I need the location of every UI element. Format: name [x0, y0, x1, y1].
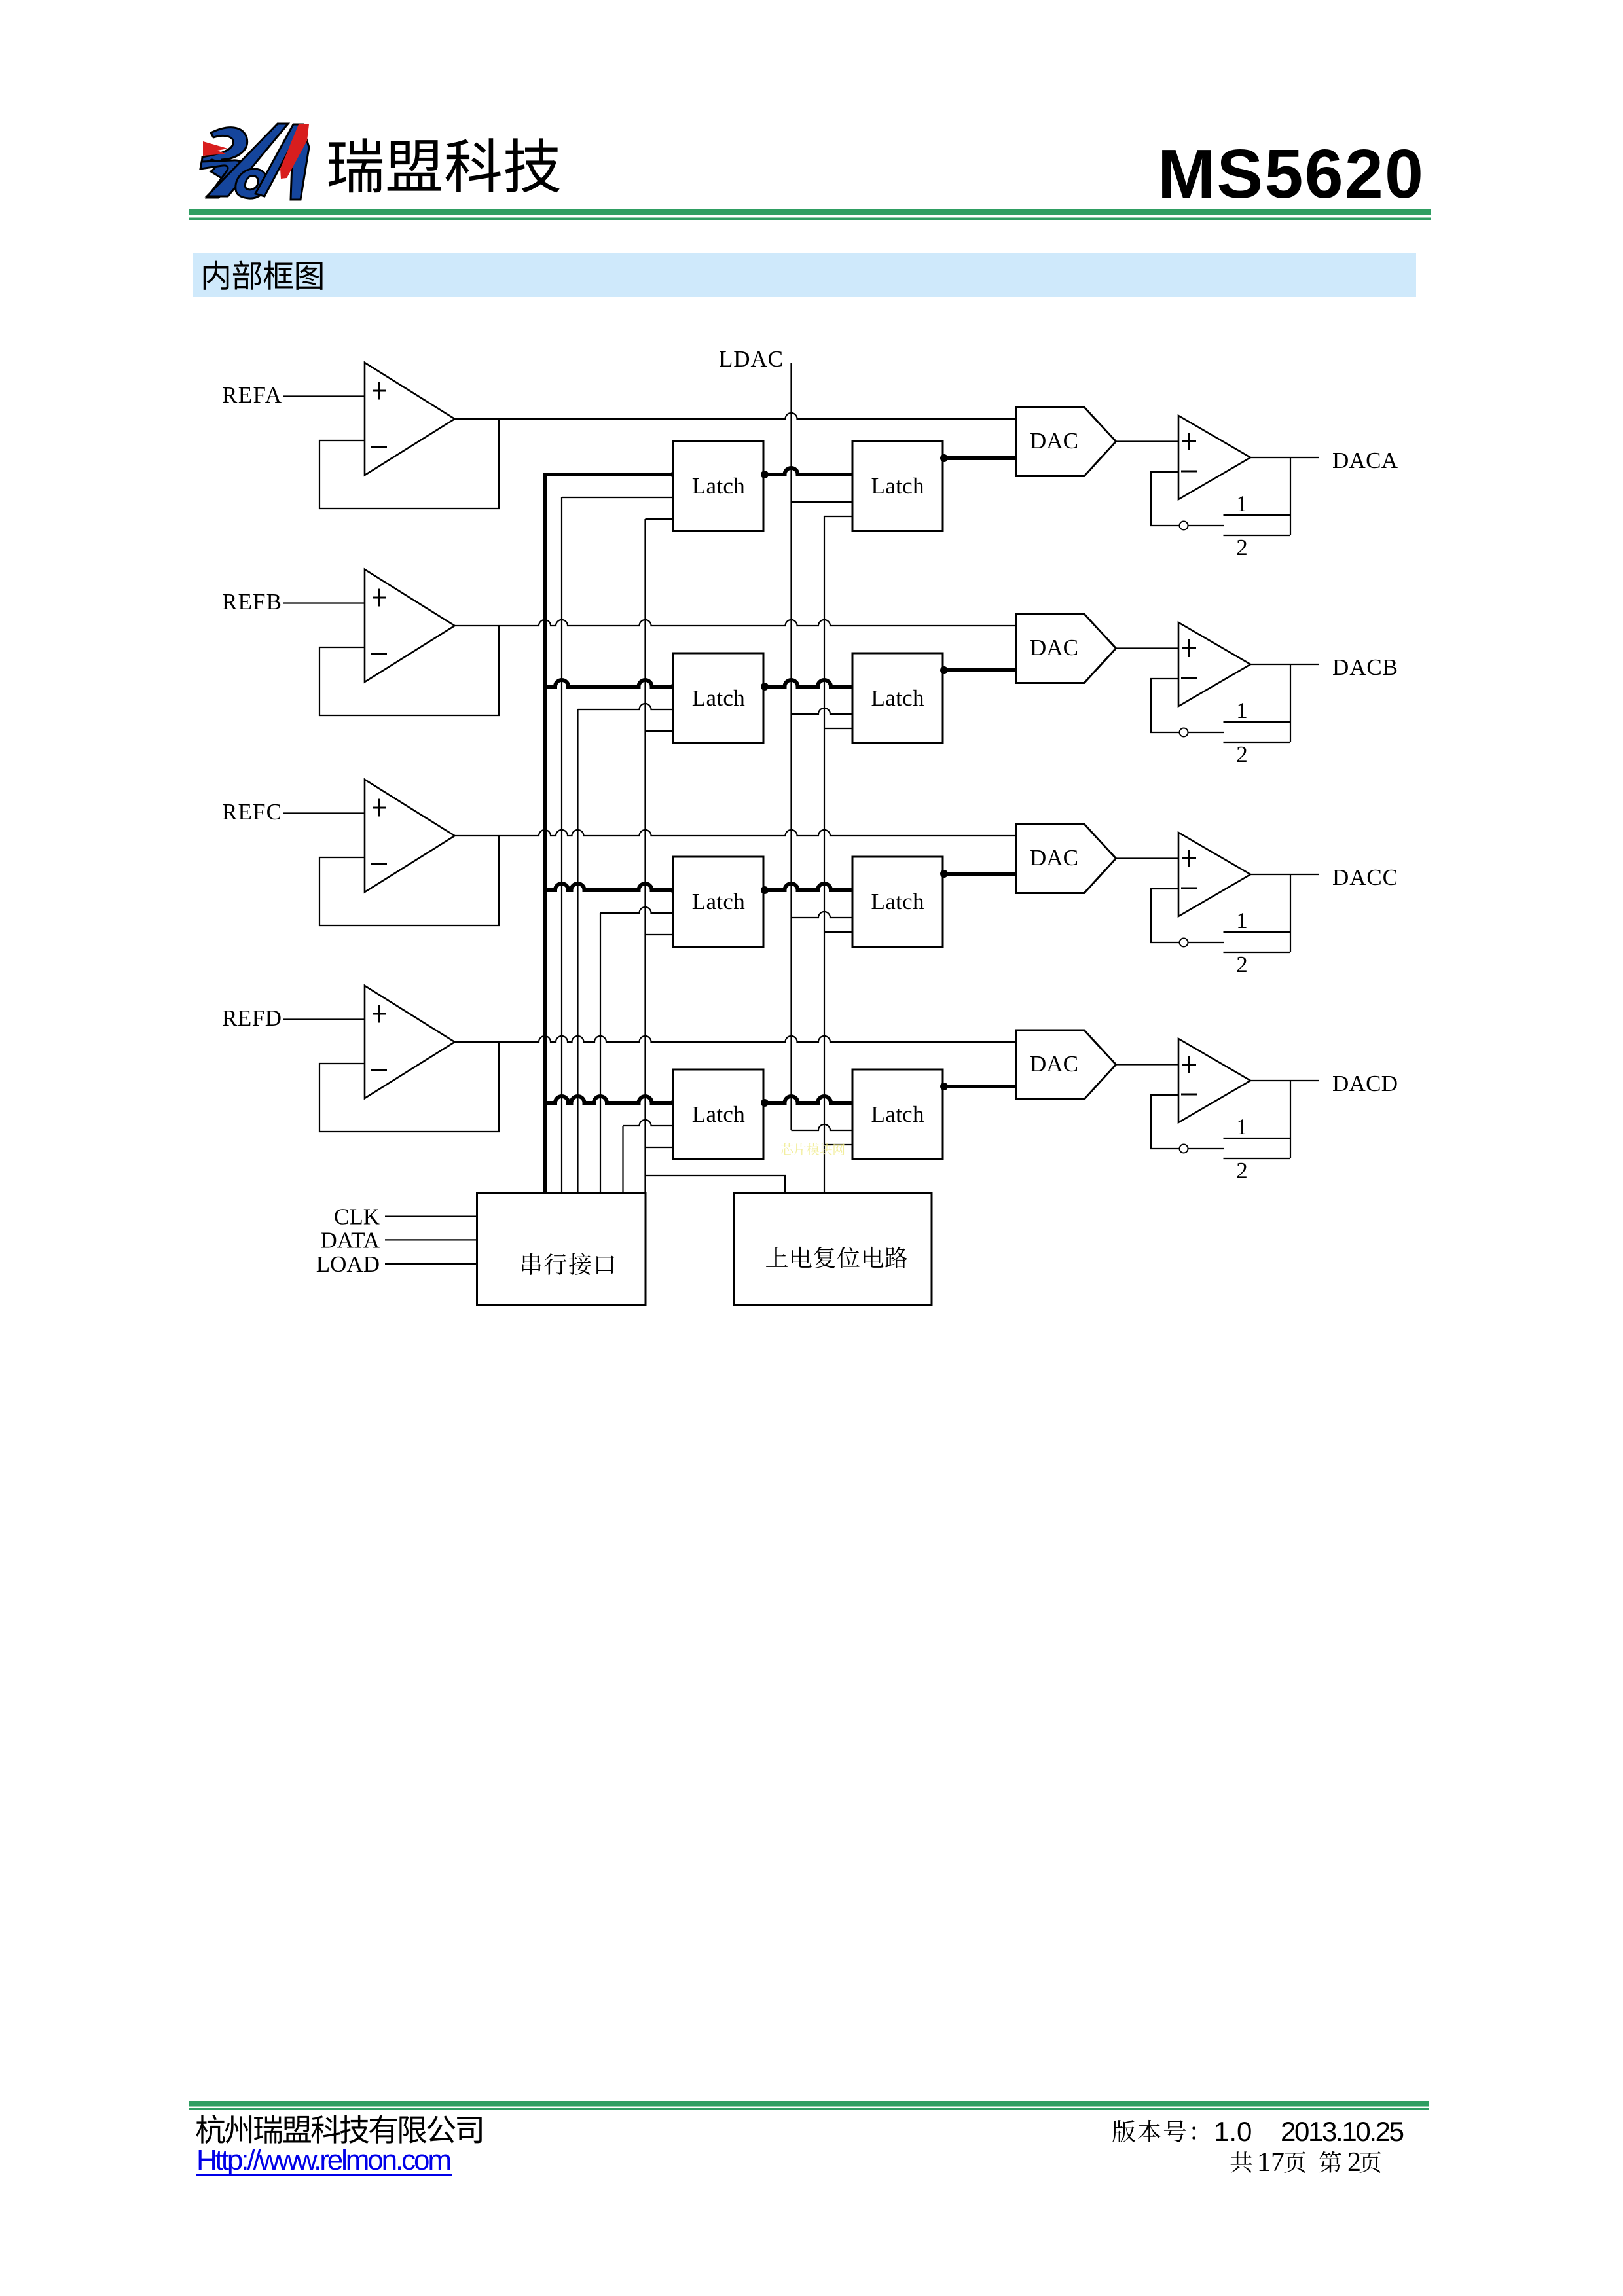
svg-text:Http://www.relmon.com: Http://www.relmon.com — [196, 2144, 452, 2176]
svg-text:DACC: DACC — [1332, 865, 1398, 890]
node divider tap circle B — [1180, 728, 1188, 737]
wire output amp B to DACB pin — [1250, 664, 1319, 665]
svg-text:REFD: REFD — [222, 1005, 282, 1031]
wire buffer C output to DAC reference input — [455, 830, 1016, 836]
wire POR branch to latch D2 — [824, 1144, 852, 1145]
node divider tap circle C — [1180, 939, 1188, 947]
svg-text:LOAD: LOAD — [316, 1251, 380, 1277]
wire POR branch to latch A2 — [824, 516, 852, 517]
resistor 1 of gain divider D — [1224, 1138, 1291, 1139]
wire REFC to buffer + input — [283, 812, 365, 814]
svg-text:1: 1 — [1236, 908, 1248, 933]
wire LOAD to serial interface — [385, 1263, 477, 1265]
wire buffer B feedback loop — [319, 626, 499, 715]
wire POR branch to latch B1 third input — [646, 730, 674, 732]
DAC B block — [1016, 614, 1116, 683]
svg-text:DAC: DAC — [1030, 635, 1078, 660]
wire DAC C output to output amplifier + input — [1116, 857, 1179, 859]
wire divider tap to resistor string B — [1188, 732, 1224, 733]
resistor 1 of gain divider B — [1224, 721, 1291, 723]
wire REFA to buffer + input — [283, 395, 365, 397]
wire DAC A output to output amplifier + input — [1116, 440, 1179, 442]
latch D1 (input register) — [674, 1069, 764, 1160]
footer version 版本号：1.0 2013.10.25 — [1112, 2120, 1195, 2142]
op-amp output amplifier A — [1178, 416, 1250, 499]
svg-text:2: 2 — [1236, 535, 1248, 560]
svg-text:1: 1 — [1236, 491, 1248, 516]
svg-text:2: 2 — [1236, 742, 1248, 767]
latch D2 (DAC register) — [852, 1069, 943, 1160]
latch A1 (input register) — [674, 441, 764, 531]
svg-text:Latch: Latch — [871, 889, 925, 914]
node divider tap circle D — [1180, 1145, 1188, 1153]
footer rule — [189, 2101, 1429, 2107]
svg-text:1.0: 1.0 — [1214, 2116, 1252, 2147]
op-amp buffer A (reference follower) — [365, 363, 455, 475]
latch B2 (DAC register) — [852, 653, 943, 744]
wire divider tap to resistor string A — [1188, 525, 1224, 526]
power-on reset block 上电复位电路 — [735, 1193, 932, 1305]
wire LDAC branch to latch C2 — [792, 912, 853, 918]
svg-text:DAC: DAC — [1030, 845, 1078, 870]
thick wire latch D1 to latch D2 — [763, 1096, 852, 1103]
latch B1 (input register) — [674, 653, 764, 744]
wire output tap down to divider B — [1290, 664, 1291, 742]
wire LDAC branch to latch A2 — [792, 501, 853, 503]
resistor 1 of gain divider C — [1224, 931, 1291, 933]
svg-text:2: 2 — [1236, 952, 1248, 977]
wire output amp C feedback to gain divider tap — [1151, 889, 1180, 942]
wire buffer A output to DAC reference input — [455, 413, 1016, 419]
thick data bus branch to row B latch — [545, 680, 675, 687]
wire buffer B output to DAC reference input — [455, 620, 1016, 626]
thick serial data bus vertical with row A branch — [545, 475, 675, 1193]
svg-text:DAC: DAC — [1030, 428, 1078, 454]
wire buffer D output to DAC reference input — [455, 1036, 1016, 1042]
wire POR vertical to second latch column — [824, 516, 825, 1193]
wire LDAC branch to latch B2 — [792, 708, 853, 714]
svg-text:17: 17 — [1257, 2147, 1285, 2178]
DAC D block — [1016, 1030, 1116, 1100]
wire CLK to serial interface — [385, 1215, 477, 1217]
thick wire latch D2 to DAC D — [943, 1085, 1016, 1088]
wire buffer C feedback loop — [319, 836, 499, 925]
svg-text:REFB: REFB — [222, 589, 282, 615]
wire output amp B feedback to gain divider tap — [1151, 679, 1180, 732]
wire DAC B output to output amplifier + input — [1116, 647, 1179, 649]
svg-text:Latch: Latch — [692, 685, 746, 711]
resistor 1 of gain divider A — [1224, 514, 1291, 516]
thick wire latch C1 to latch C2 — [763, 884, 852, 890]
svg-text:Latch: Latch — [871, 1102, 925, 1127]
wire REFD to buffer + input — [283, 1018, 365, 1020]
wire buffer A feedback loop — [319, 419, 499, 509]
wire power-on-reset from POR block to serial interface and latches — [646, 519, 786, 1193]
wire DATA to serial interface — [385, 1239, 477, 1240]
wire divider tap to resistor string D — [1188, 1148, 1224, 1149]
svg-text:2: 2 — [1236, 1158, 1248, 1183]
svg-text:Latch: Latch — [692, 889, 746, 914]
svg-text:DACD: DACD — [1332, 1071, 1398, 1096]
svg-text:MS5620: MS5620 — [1158, 135, 1423, 213]
svg-text:DAC: DAC — [1030, 1051, 1078, 1077]
latch C1 (input register) — [674, 857, 764, 947]
footer company name — [196, 2115, 482, 2144]
op-amp output amplifier D — [1178, 1039, 1250, 1122]
thick wire latch C2 to DAC C — [943, 872, 1016, 876]
svg-text:LDAC: LDAC — [719, 346, 783, 372]
latch C2 (DAC register) — [852, 857, 943, 947]
resistor 2 of gain divider B — [1224, 742, 1291, 743]
resistor 2 of gain divider C — [1224, 952, 1291, 953]
op-amp buffer C (reference follower) — [365, 780, 455, 892]
svg-text:DATA: DATA — [320, 1227, 380, 1253]
svg-text:DACA: DACA — [1332, 448, 1398, 473]
DAC C block — [1016, 824, 1116, 893]
wire output amp D feedback to gain divider tap — [1151, 1095, 1180, 1149]
wire POR branch to latch C2 — [824, 931, 852, 933]
resistor 2 of gain divider A — [1224, 535, 1291, 536]
wire output amp A feedback to gain divider tap — [1151, 472, 1180, 526]
wire POR branch to latch D1 third input — [646, 1147, 674, 1148]
svg-text:Latch: Latch — [871, 473, 925, 499]
svg-text:Latch: Latch — [692, 1102, 746, 1127]
wire output tap down to divider D — [1290, 1081, 1291, 1158]
wire output amp D to DACD pin — [1250, 1080, 1319, 1081]
company logo RM monogram — [200, 124, 309, 200]
latch A2 (DAC register) — [852, 441, 943, 531]
op-amp buffer D (reference follower) — [365, 986, 455, 1098]
wire POR branch to latch C1 third input — [646, 934, 674, 935]
wire serial interface bit line to latch D1 second input — [622, 1126, 623, 1193]
node divider tap circle A — [1180, 522, 1188, 530]
resistor 2 of gain divider D — [1224, 1158, 1291, 1159]
thick wire latch B1 to latch B2 — [763, 680, 852, 687]
svg-text:2013.10.25: 2013.10.25 — [1281, 2116, 1404, 2147]
wire buffer D feedback loop — [319, 1042, 499, 1132]
wire output amp A to DACA pin — [1250, 457, 1319, 458]
wire output amp C to DACC pin — [1250, 874, 1319, 875]
op-amp buffer B (reference follower) — [365, 569, 455, 682]
watermark 芯片模块网 — [781, 1143, 845, 1155]
footer page count 共17页 第2页 — [1231, 2151, 1252, 2173]
thick wire latch A2 to DAC A — [943, 456, 1016, 460]
svg-text:CLK: CLK — [334, 1204, 380, 1230]
thick data bus branch to row D latch — [545, 1096, 675, 1103]
DAC A block — [1016, 407, 1116, 476]
wire output tap down to divider A — [1290, 457, 1291, 535]
thick wire latch B2 to DAC B — [943, 668, 1016, 672]
wire REFB to buffer + input — [283, 602, 365, 603]
thick data bus branch to row C latch — [545, 884, 675, 890]
junction dot data bus into latch B1 — [671, 683, 679, 691]
wire DAC D output to output amplifier + input — [1116, 1064, 1179, 1065]
svg-text:REFA: REFA — [222, 382, 282, 408]
wire LDAC vertical — [790, 363, 792, 1130]
wire LDAC branch to latch D2 — [792, 1124, 853, 1130]
serial interface block 串行接口 — [477, 1193, 646, 1305]
svg-text:Latch: Latch — [692, 473, 746, 499]
op-amp output amplifier C — [1178, 833, 1250, 916]
op-amp output amplifier B — [1178, 622, 1250, 706]
company name 瑞盟科技 — [329, 138, 560, 192]
junction dot data bus into latch D1 — [671, 1099, 679, 1107]
wire output tap down to divider C — [1290, 874, 1291, 952]
wire divider tap to resistor string C — [1188, 942, 1224, 943]
junction dot data bus into latch A1 — [671, 471, 679, 478]
junction dot data bus into latch C1 — [671, 886, 679, 894]
svg-text:DACB: DACB — [1332, 655, 1398, 680]
svg-text:1: 1 — [1236, 1114, 1248, 1139]
section banner 内部框图 — [193, 253, 1416, 297]
svg-text:1: 1 — [1236, 698, 1248, 723]
svg-text:Latch: Latch — [871, 685, 925, 711]
wire POR branch to latch B2 — [824, 728, 852, 729]
svg-text:2: 2 — [1347, 2147, 1361, 2178]
svg-text:REFC: REFC — [222, 799, 282, 825]
wire serial interface bit line to latch A1 second input — [561, 497, 562, 1193]
header rule — [189, 209, 1431, 215]
wire POR branch to latch A1 third input — [646, 518, 674, 520]
wire serial interface bit line to latch B1 second input — [577, 709, 578, 1193]
thick wire latch A1 to latch A2 — [763, 468, 852, 475]
wire serial interface bit line to latch C1 second input — [600, 913, 601, 1193]
